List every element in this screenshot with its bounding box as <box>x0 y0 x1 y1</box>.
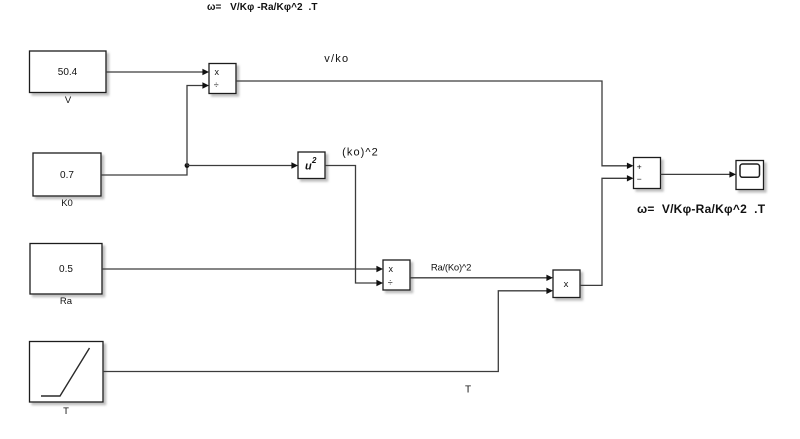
wire: u^2 output to divide U2 divide-input <box>325 166 383 287</box>
wire: sum output to scope <box>661 171 737 177</box>
svg-text:v/ko: v/ko <box>324 53 349 65</box>
wire: junction up to divide U1 divide-input <box>187 82 209 165</box>
svg-text:0.7: 0.7 <box>60 170 74 181</box>
constant block V (50.4) <box>30 51 107 93</box>
wire: divide U1 output v/ko to sum plus-input <box>236 81 634 169</box>
ramp source block T <box>30 342 104 403</box>
svg-text:ω= V/Kφ-Ra/Kφ^2 .T: ω= V/Kφ-Ra/Kφ^2 .T <box>637 202 766 216</box>
svg-text:T: T <box>465 385 471 396</box>
wire: junction right to u^2 input <box>187 162 298 168</box>
svg-text:0.5: 0.5 <box>59 264 73 275</box>
constant block K0 (0.7) <box>33 153 101 196</box>
svg-text:50.4: 50.4 <box>58 67 78 78</box>
svg-text:−: − <box>637 174 642 184</box>
wire: V output to divide U1 x-input <box>106 69 209 75</box>
wire: K0 output to junction <box>101 166 187 176</box>
svg-text:÷: ÷ <box>388 278 393 288</box>
wire: Ra output to divide U2 x-input <box>102 266 383 272</box>
product block (x) <box>553 270 580 298</box>
svg-text:ω= V/Kφ -Ra/Kφ^2 .T: ω= V/Kφ -Ra/Kφ^2 .T <box>207 2 318 13</box>
svg-text:Ra: Ra <box>60 296 73 307</box>
wire: ramp T output to product input 2 <box>103 288 553 372</box>
svg-text:T: T <box>63 406 69 417</box>
scope block <box>736 161 764 190</box>
wire: divide U2 output Ra/(Ko)^2 to product input 1 <box>410 275 553 281</box>
svg-text:Ra/(Ko)^2: Ra/(Ko)^2 <box>431 262 471 273</box>
svg-text:(ko)^2: (ko)^2 <box>342 146 379 158</box>
svg-text:u: u <box>305 161 312 173</box>
divide block U1 (x over divide) <box>209 64 236 94</box>
annotation: bottom equation text <box>637 202 766 216</box>
sum block (+ -) <box>634 158 661 189</box>
svg-text:x: x <box>215 67 220 77</box>
junction node <box>185 163 190 168</box>
svg-text:2: 2 <box>311 156 317 165</box>
svg-text:x: x <box>564 279 569 290</box>
svg-text:+: + <box>637 162 642 172</box>
constant block Ra (0.5) <box>30 244 102 295</box>
math function block u^2 <box>298 152 325 179</box>
svg-text:x: x <box>389 264 394 274</box>
svg-text:K0: K0 <box>61 198 73 209</box>
wire: product output to sum minus-input <box>580 175 634 285</box>
divide block U2 (x over divide) <box>383 260 410 290</box>
svg-text:÷: ÷ <box>214 80 219 90</box>
svg-text:V: V <box>65 95 72 106</box>
annotation: top equation text <box>207 2 318 13</box>
